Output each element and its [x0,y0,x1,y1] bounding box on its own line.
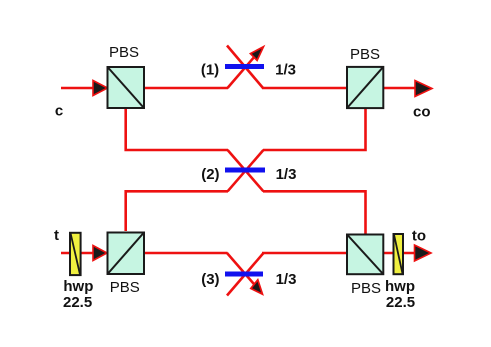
wire element 2 diagonal B [228,150,264,191]
arrowhead element 1 loss [250,47,263,61]
wire element 2 down to PBS4 [263,191,366,234]
svg-text:to: to [412,228,426,245]
svg-text:t: t [54,227,59,244]
PBS U2 top-right beamsplitter cube [347,67,383,108]
PBS U4 bottom-right beamsplitter cube [347,235,383,275]
wire element 1 to PBS2 [262,87,346,90]
svg-text:1/3: 1/3 [276,166,297,183]
wire element 2 diagonal A [228,150,264,191]
svg-text:co: co [413,103,431,120]
wire PBS3 to element 3 [145,252,228,255]
svg-text:PBS: PBS [351,280,381,297]
arrowhead to output [415,245,432,261]
wire to output [384,252,429,255]
svg-text:c: c [55,103,63,120]
svg-text:PBS: PBS [110,279,140,296]
beamsplitter plate BS2 (1/3) [225,168,265,173]
beamsplitter plate BS3 (1/3) [225,272,263,277]
svg-text:(3): (3) [201,271,219,288]
wire element 3 diagonal down with loss arrow [227,253,257,287]
svg-text:hwp: hwp [385,278,415,295]
arrowhead t input [93,246,107,261]
half-wave plate HWP2 (output to) [394,234,404,274]
svg-text:22.5: 22.5 [386,294,415,311]
wire t input [61,252,106,255]
wire element 1 diagonal down [227,46,263,89]
beamsplitter plate BS1 (1/3) [225,64,264,69]
wire element 1 diagonal up with loss arrow [228,52,259,88]
svg-text:PBS: PBS [350,46,380,63]
PBS U3 bottom-left beamsplitter cube [108,233,145,275]
wire element 3 diagonal up [227,253,264,296]
wire co output [384,87,430,90]
wire PBS3 up to element 2 [126,191,228,231]
svg-text:22.5: 22.5 [63,294,92,311]
svg-text:PBS: PBS [109,44,139,61]
half-wave plate HWP1 (input t) [70,233,81,275]
PBS U1 top-left beamsplitter cube [108,67,145,108]
arrowhead element 3 loss [251,280,263,294]
svg-text:(1): (1) [201,62,219,79]
wire element 2 to PBS2 [263,109,366,150]
svg-text:1/3: 1/3 [275,62,296,79]
arrowhead co output [415,81,432,97]
wire c input [61,87,106,90]
svg-text:hwp: hwp [63,278,93,295]
wire element 3 to PBS4 [262,252,346,255]
wire PBS1 down [126,109,228,150]
wire PBS1 to element 1 [145,87,228,90]
svg-text:1/3: 1/3 [276,271,297,288]
svg-text:(2): (2) [201,166,219,183]
arrowhead c input [93,81,108,96]
